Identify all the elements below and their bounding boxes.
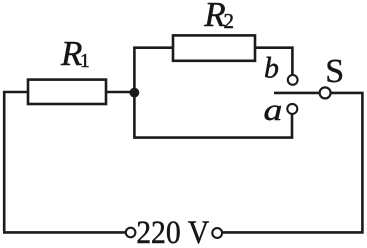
wire: junction up to R2 branch [134, 48, 173, 92]
wire: switch pivot to right side, down to bottom right terminal [223, 93, 363, 233]
svg-text:220 V: 220 V [136, 215, 209, 248]
contact a (open terminal circle) [287, 104, 297, 114]
wire: R2 right terminal to contact b [255, 48, 292, 75]
svg-text:1: 1 [80, 51, 90, 72]
source terminal right (open circle) [212, 228, 222, 238]
switch S pivot circle [320, 87, 331, 98]
source terminal left (open circle) [126, 228, 136, 238]
resistor R2 [173, 35, 255, 60]
svg-text:S: S [325, 53, 344, 90]
switch S lever wire [274, 92, 319, 95]
wire: left branch from R1 left terminal, down left side to bottom left terminal [4, 92, 28, 231]
svg-text:R: R [203, 0, 225, 34]
node junction (solder dot) [130, 89, 138, 97]
contact b (open terminal circle) [288, 75, 298, 85]
resistor R1 [28, 80, 106, 104]
wire: contact a down and lower branch back to junction [134, 93, 292, 138]
wire: R1 right terminal to node junction [106, 91, 134, 94]
svg-text:b: b [264, 52, 279, 85]
wire: bottom left horizontal to source terminal [3, 231, 126, 234]
svg-text:2: 2 [224, 9, 235, 33]
svg-text:a: a [264, 93, 283, 127]
